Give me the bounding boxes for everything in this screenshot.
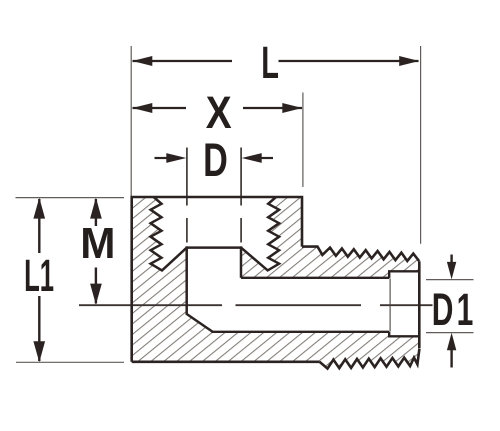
centerline of horizontal bore <box>79 304 433 306</box>
dimension D tail left <box>155 157 170 159</box>
dimension L1 line <box>38 199 40 361</box>
dimension L arrow right <box>399 56 419 66</box>
svg-text:L1: L1 <box>24 250 54 300</box>
cavity left wall and chamfer <box>187 246 213 331</box>
extension line D left with minor-dia dash <box>186 148 188 243</box>
female thread profile left (zigzag + runout) <box>151 197 187 270</box>
extension line bore bottom (for D1) <box>426 332 474 334</box>
dimension D tail right <box>259 157 273 159</box>
pilot nose outline <box>389 271 419 336</box>
female thread profile right (zigzag + runout) <box>241 197 279 270</box>
extension line top face (for L1 and M) <box>16 197 125 199</box>
dimension L line <box>133 60 419 62</box>
svg-text:L: L <box>261 38 279 88</box>
dimension M arrow top <box>90 198 102 219</box>
dimension D1 arrow bottom <box>447 333 456 351</box>
port right wall <box>240 246 243 277</box>
bore top line <box>241 277 389 279</box>
dimension X arrow right <box>282 103 302 113</box>
dimension M line <box>95 199 97 304</box>
nose step hidden edge thin <box>389 279 391 332</box>
svg-text:X: X <box>206 87 232 138</box>
dimension D1 tail top <box>450 255 452 264</box>
male thread top profile <box>302 247 419 262</box>
svg-text:M: M <box>80 219 115 268</box>
svg-text:D: D <box>203 134 228 187</box>
dimension D1 tail bottom <box>450 350 452 368</box>
dimension D arrow left <box>166 153 186 163</box>
dimension X arrow left <box>132 103 152 113</box>
dimension M arrow bottom <box>90 284 102 305</box>
dimension L1 arrow top <box>33 198 45 219</box>
dimension L arrow left <box>132 56 152 66</box>
extension line left face (for L and X) <box>130 46 132 196</box>
extension line bottom face (for L1) <box>16 361 124 363</box>
male thread bottom profile <box>320 349 420 369</box>
extension line bore top (for D1) <box>426 279 474 281</box>
dimension D arrow right <box>242 153 262 163</box>
dimension L1 arrow bottom <box>33 341 45 362</box>
dimension D1 arrow top <box>447 262 456 280</box>
extension line right end (for L) <box>420 46 422 244</box>
bore bottom line <box>212 331 390 333</box>
male end face <box>418 261 421 348</box>
hatched section: upper right band <box>241 197 419 278</box>
port bottom shelf edge <box>186 246 243 249</box>
hatched section: left body and bottom band <box>132 197 420 369</box>
dimension X line <box>133 107 303 109</box>
body outline <box>132 197 302 362</box>
svg-text:D1: D1 <box>432 285 477 336</box>
extension line shoulder (for X) <box>302 93 304 188</box>
body bottom edge <box>132 360 320 363</box>
extension line D right with minor-dia dash <box>240 148 242 243</box>
